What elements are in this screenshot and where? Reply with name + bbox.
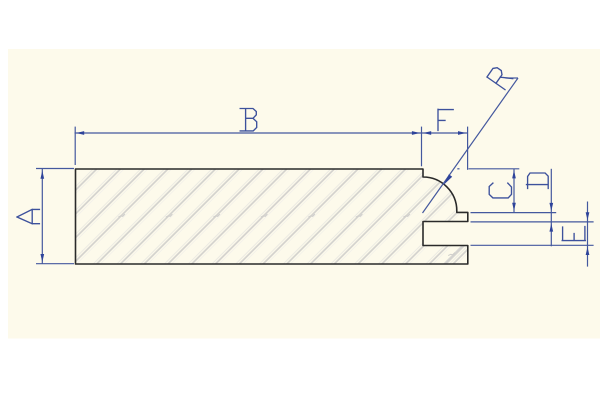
profile outline [76,169,468,264]
dimension A extension bottom [36,263,74,265]
label F [438,109,453,130]
dimension D extension lip [471,212,557,214]
radius R leader hook [506,77,519,79]
dimension E extension groove bottom [471,244,594,246]
arrow E lower (points up to groove bottom line) [586,247,590,255]
dimension E dim line [587,202,589,267]
dimension B extension left [74,127,76,165]
extra hatch band in lower-right tongue block [443,246,466,265]
label B [240,109,257,131]
grain tick on tongue block band [448,253,455,256]
dimension D dim line [550,169,552,247]
dimension B/F shared extension [421,127,423,167]
dimension F dim line [422,132,468,134]
arrow A top [40,171,44,179]
arrow F right [458,131,466,135]
label E (rotated) [562,227,585,241]
dimension A extension top [36,168,74,170]
arrow B left [76,131,84,135]
arrow R leader (points to arc) [444,174,453,185]
arrow B right [412,131,420,135]
label A (rotated) [17,209,39,223]
dimension B dim line [75,132,422,134]
dimension F extension right [467,127,469,170]
dimension A dim line [41,169,43,264]
dimension C extension top (dot) [457,168,459,170]
label C (rotated) [489,183,511,198]
arrow C top [512,170,516,178]
arrow D lower (points up to groove line) [549,224,553,232]
arrow A bottom [40,254,44,262]
arrow E upper (points down to groove top line) [586,212,590,220]
arrow D upper (points down to lip line) [549,203,553,211]
label D (rotated) [527,173,549,188]
label R (rotated along leader) [487,66,513,90]
dimension C dim line [513,169,515,212]
arrow C bottom [512,203,516,211]
hatch fill of profile [70,160,480,275]
arrow F left [423,131,431,135]
hatch grain tick marks [118,214,410,217]
dimension D extension groove top [471,221,594,223]
dimension C extension top [469,168,520,170]
radius R leader line [423,78,519,213]
